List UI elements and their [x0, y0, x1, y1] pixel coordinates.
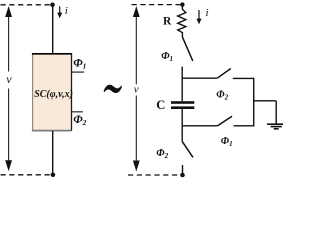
box SC(phi,v,x)	[32, 54, 72, 131]
svg-text:R: R	[163, 16, 172, 28]
svg-text:Φ2: Φ2	[156, 148, 168, 160]
svg-text:i: i	[65, 5, 68, 17]
equivalence tilde symbol	[104, 85, 122, 93]
wire: switch phi2 bottom terminal to bottom node	[182, 165, 184, 175]
svg-text:Φ2: Φ2	[216, 89, 228, 101]
wire: top-right dashed rail	[132, 4, 183, 6]
wire: junction A down to capacitor	[181, 78, 183, 101]
voltage arrow v (right circuit, double-headed)	[133, 6, 140, 172]
wire: bottom-left dashed rail	[1, 174, 54, 176]
node: bottom-right junction dot	[180, 173, 185, 178]
node: top-right junction dot	[180, 2, 184, 6]
wire: top-left dashed rail	[1, 4, 53, 6]
wire: bottom-right dashed rail	[128, 174, 183, 176]
switch phi1 blade (below resistor)	[182, 37, 192, 61]
svg-text:Φ1: Φ1	[221, 136, 233, 148]
switch phi2 blade (bottom left)	[182, 141, 193, 157]
current arrow i (left circuit)	[57, 6, 62, 18]
svg-text:Φ1: Φ1	[161, 51, 173, 63]
capacitor C plates	[171, 101, 194, 109]
wire: top node to box	[52, 5, 54, 53]
svg-text:Φ1: Φ1	[73, 56, 86, 71]
switch phi1 blade (bottom horizontal)	[218, 116, 232, 126]
wire: box bottom to bottom node	[52, 131, 54, 175]
wire: junction A horizontal to switch phi2 (top)	[182, 77, 218, 79]
wire: junction B down to switch phi2 (bottom left)	[181, 126, 183, 142]
wire: right bus vertical	[253, 78, 255, 127]
switch phi2 blade (top horizontal)	[217, 69, 231, 79]
pin stub phi1 (box upper right)	[72, 71, 85, 73]
node: bottom-left junction dot	[51, 173, 56, 178]
node: top-left junction dot	[50, 3, 55, 8]
pin stub phi2 (box lower right)	[72, 111, 83, 113]
wire: capacitor to junction B	[181, 109, 183, 127]
wire: switch phi1 right terminal to bus	[234, 125, 255, 127]
wire: switch phi2 right terminal to bus	[233, 77, 255, 79]
ground symbol	[267, 124, 285, 129]
resistor R zigzag	[178, 5, 186, 37]
wire: junction B horizontal to switch phi1 (bottom)	[182, 125, 217, 127]
svg-text:v: v	[6, 72, 12, 86]
voltage arrow v (left circuit, double-headed)	[5, 6, 12, 171]
wire: bus to ground stem	[254, 100, 277, 102]
svg-text:SC(φ,v,x): SC(φ,v,x)	[34, 89, 73, 100]
svg-text:Φ2: Φ2	[73, 112, 86, 127]
wire: ground stem vertical	[275, 101, 277, 124]
wire: switch phi1 bottom terminal to junction A	[181, 67, 183, 79]
svg-text:i: i	[206, 7, 209, 19]
current arrow i (right circuit)	[197, 10, 202, 24]
svg-text:v: v	[134, 84, 139, 96]
svg-text:C: C	[156, 98, 165, 112]
